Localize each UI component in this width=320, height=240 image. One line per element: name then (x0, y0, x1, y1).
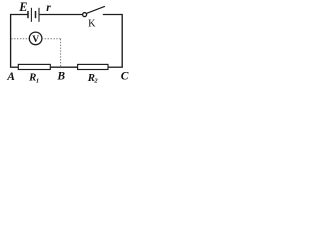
voltmeter V circle (29, 32, 42, 45)
switch K lever (open) (86, 6, 105, 13)
dashed wire: down to node B (60, 39, 62, 67)
svg-text:1: 1 (36, 78, 39, 85)
svg-text:2: 2 (93, 78, 98, 85)
svg-text:B: B (56, 71, 65, 83)
svg-text:C: C (121, 71, 129, 83)
battery E cell2 short plate (35, 11, 37, 18)
resistor R1 box (18, 64, 50, 69)
resistor R2 box (78, 64, 108, 69)
dashed wire: left wire to voltmeter (11, 38, 29, 40)
svg-text:E: E (18, 0, 27, 14)
wire: switch to top-right corner and down right side to node C (103, 15, 122, 68)
label R2 (87, 72, 99, 85)
wire: left side from node A up to battery negative plate (11, 15, 28, 68)
svg-text:K: K (88, 18, 96, 29)
wire: battery positive to switch K (40, 14, 83, 16)
label R1 (28, 72, 39, 85)
dashed wire: voltmeter to corner above node B (42, 38, 61, 40)
battery E cell1 long plate (30, 8, 32, 22)
battery E cell2 long plate (38, 8, 40, 22)
svg-text:r: r (46, 2, 51, 14)
battery E cell1 short plate (27, 11, 29, 18)
svg-text:A: A (6, 71, 15, 83)
wire: resistor R1 to resistor R2 through node B (50, 66, 77, 68)
wire: resistor R2 to node C (108, 66, 123, 68)
switch K pivot circle (83, 13, 87, 17)
wire: node A to resistor R1 (10, 66, 18, 68)
svg-text:V: V (32, 35, 39, 45)
